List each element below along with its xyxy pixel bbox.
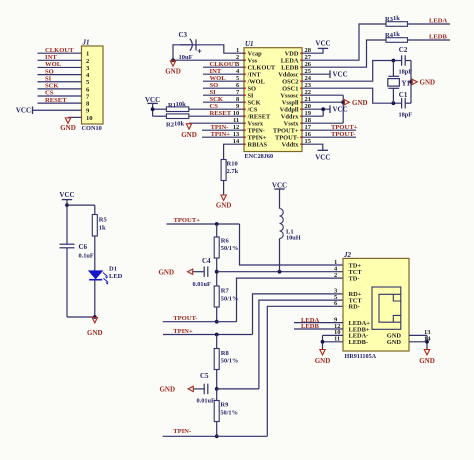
svg-text:1k: 1k xyxy=(99,224,106,231)
wire U1 pin 14 RBIAS to R10 xyxy=(224,144,244,159)
wire U1 pin 13 net TPIN+ xyxy=(202,136,244,138)
svg-text:0.1uF: 0.1uF xyxy=(79,253,94,260)
svg-text:R41k: R41k xyxy=(385,31,400,39)
J2 left pin names xyxy=(349,262,371,346)
resistor R10 2.7k xyxy=(221,160,226,181)
wire J1 pin 3 net WOL xyxy=(38,66,82,68)
wire net TPIN- to RD- xyxy=(163,435,268,437)
svg-text:C4: C4 xyxy=(202,257,211,265)
svg-text:LEDB: LEDB xyxy=(429,34,448,41)
wire U1 pin 5 net WOL xyxy=(203,80,244,82)
capacitor C2 18pF xyxy=(401,55,403,66)
svg-text:C2: C2 xyxy=(399,46,408,54)
junction TPIN- R9 xyxy=(215,434,219,438)
svg-text:/WOL: /WOL xyxy=(247,78,265,85)
svg-text:TPIN+: TPIN+ xyxy=(211,131,231,138)
junction J2 pin 14 ground xyxy=(425,340,429,344)
svg-text:VCC: VCC xyxy=(315,153,330,161)
junction ground pins 21-22 xyxy=(341,100,345,104)
wire J1 pin 6 net SCK xyxy=(38,88,82,90)
wire R10 to ground xyxy=(223,181,225,196)
U1 left pin names xyxy=(247,50,276,148)
svg-text:J1: J1 xyxy=(82,39,90,47)
junction center tap TCT xyxy=(215,270,219,274)
junction ground rail xyxy=(93,315,97,319)
svg-text:SI: SI xyxy=(210,89,217,96)
wire J1 pin 4 net SO xyxy=(38,74,82,76)
svg-text:Vssrx: Vssrx xyxy=(248,120,264,127)
svg-text:CLKOUT: CLKOUT xyxy=(210,61,239,68)
junction TPIN+ R8 xyxy=(215,333,219,337)
svg-text:Vsspll: Vsspll xyxy=(282,99,299,106)
wire U1 pin 28 VDD to VCC xyxy=(302,48,323,53)
svg-text:R5: R5 xyxy=(99,216,108,223)
svg-text:RESET: RESET xyxy=(210,110,232,117)
LED D1 xyxy=(89,271,102,279)
svg-text:/INT: /INT xyxy=(247,71,262,78)
svg-text:LEDA: LEDA xyxy=(281,57,299,64)
svg-text:LED: LED xyxy=(109,273,123,280)
ground at J1 pin 10 xyxy=(65,118,70,123)
svg-text:R9: R9 xyxy=(220,402,229,409)
svg-text:TD-: TD- xyxy=(349,275,360,282)
svg-text:LEDB-: LEDB- xyxy=(349,339,369,346)
svg-text:Vddpll: Vddpll xyxy=(280,106,299,113)
svg-text:18pF: 18pF xyxy=(399,111,413,118)
resistor R7 50/1% xyxy=(214,286,219,307)
junction crystal ground xyxy=(409,80,413,84)
wire U1 pin 7 net SI xyxy=(203,94,244,96)
wire R8 to C5 node xyxy=(216,370,218,389)
svg-text:INT: INT xyxy=(210,68,222,75)
wire R3 to LEDA stub xyxy=(408,23,451,25)
svg-text:R6: R6 xyxy=(221,238,230,245)
wire ground rail C6 to D1 xyxy=(67,316,95,318)
svg-text:GND: GND xyxy=(181,131,197,139)
power VCC at U1 pin 20 xyxy=(329,105,331,113)
capacitor C4 0.01uF xyxy=(203,266,205,277)
U1 right pin numbers 28-15 xyxy=(305,47,312,145)
svg-text:50/1%: 50/1% xyxy=(220,410,238,417)
svg-text:C5: C5 xyxy=(200,372,209,380)
svg-text:2: 2 xyxy=(334,272,337,279)
svg-text:SCK: SCK xyxy=(210,96,224,103)
svg-text:TPIN+: TPIN+ xyxy=(248,134,267,141)
junction crystal top xyxy=(392,59,396,63)
power VCC at J1 pin 9 xyxy=(33,109,82,111)
svg-text:RBIAS: RBIAS xyxy=(248,141,268,148)
ground at J2 right xyxy=(424,350,429,355)
wire J1 pin 8 net RESET xyxy=(38,102,82,104)
svg-text:Vcap: Vcap xyxy=(248,50,263,57)
svg-text:10: 10 xyxy=(86,115,93,122)
svg-text:RESET: RESET xyxy=(45,97,67,104)
junction VCC split xyxy=(65,203,69,207)
wire C4 to ground arrow xyxy=(193,271,205,273)
wire J2 pins 13 14 to ground xyxy=(409,334,427,336)
svg-text:1: 1 xyxy=(86,51,89,58)
resistor R3 1k xyxy=(386,22,408,27)
svg-text:VDD: VDD xyxy=(285,50,299,57)
svg-text:R110k: R110k xyxy=(168,101,186,109)
wire crystal caps to ground xyxy=(405,60,411,62)
junction crystal bottom xyxy=(392,101,396,105)
svg-text:Vss: Vss xyxy=(248,57,258,64)
svg-text:GND: GND xyxy=(387,339,402,346)
svg-text:GND: GND xyxy=(420,79,436,87)
RJ45 jack symbol xyxy=(372,287,401,329)
svg-text:WOL: WOL xyxy=(45,61,62,68)
wire J2 pins 10 11 to ground xyxy=(323,334,344,336)
svg-text:TPOUT+: TPOUT+ xyxy=(273,127,299,134)
svg-text:GND: GND xyxy=(158,268,174,276)
svg-text:Vddosc: Vddosc xyxy=(278,71,298,78)
svg-text:CLKOUT: CLKOUT xyxy=(45,47,74,54)
power VCC below pin 15 xyxy=(318,149,328,151)
wire R2 to U1 pin 10 RESET xyxy=(189,115,244,117)
resistor R4 1k xyxy=(386,38,408,43)
svg-text:TPOUT-: TPOUT- xyxy=(275,134,299,141)
J2 left pin numbers xyxy=(334,259,341,343)
svg-text:TPIN-: TPIN- xyxy=(211,124,229,131)
wire J1 pin 10 to ground xyxy=(68,116,82,118)
wire LEDA to J2 pin 9 xyxy=(294,322,343,324)
connector J2 HR911105A body xyxy=(343,258,409,351)
svg-text:VCC: VCC xyxy=(333,106,348,114)
wire net TPOUT- to TD- xyxy=(163,321,237,323)
wire LEDB to J2 pin 12 xyxy=(294,328,343,330)
connector J1 CON10 xyxy=(82,46,104,124)
wire R1 to U1 pin 9 CS xyxy=(189,108,244,110)
svg-text:0.01uF: 0.01uF xyxy=(197,397,216,404)
svg-text:2.7k: 2.7k xyxy=(227,168,239,175)
svg-text:VCC: VCC xyxy=(315,40,330,48)
wire C3 left lead xyxy=(173,45,190,60)
wire U1 pin 8 net SCK xyxy=(203,101,244,103)
wire R9 to TPIN- xyxy=(216,422,218,437)
wire C5 to ground arrow xyxy=(193,388,204,390)
wire U1 pin 17 net TPOUT+ xyxy=(302,129,356,131)
svg-text:GND: GND xyxy=(60,124,76,132)
svg-text:GND: GND xyxy=(87,329,103,337)
resistor R5 1k xyxy=(94,205,96,214)
wire U1 pin 27 LEDA to R3 xyxy=(302,24,386,60)
svg-text:GND: GND xyxy=(165,68,181,76)
wire VCC to R5 branch xyxy=(67,204,95,206)
svg-text:OSC2: OSC2 xyxy=(282,78,298,85)
J1 pin numbers 1-10 xyxy=(86,51,93,122)
svg-text:D1: D1 xyxy=(109,266,117,273)
ground at LED block xyxy=(92,318,97,323)
wire R6 to center tap xyxy=(216,258,218,286)
svg-text:0.01uF: 0.01uF xyxy=(193,281,212,288)
svg-text:SO: SO xyxy=(248,85,257,92)
svg-text:R10: R10 xyxy=(227,161,238,168)
wire R4 to LEDB stub xyxy=(408,39,451,41)
junction VCC-R1 xyxy=(151,107,155,111)
wire U1 pins 20 19 to VCC xyxy=(302,108,330,110)
svg-text:GND: GND xyxy=(352,99,368,107)
power VCC at U1 pin 25 Vddosc xyxy=(302,73,330,75)
ground at crystal xyxy=(412,79,417,84)
junction J2 pin 11 ground xyxy=(321,340,325,344)
svg-text:CS: CS xyxy=(45,90,54,97)
ground below C3 xyxy=(170,61,175,66)
ground at U1 pin 11 xyxy=(186,124,191,129)
svg-text:CS: CS xyxy=(210,103,219,110)
wire U1 pin 4 net INT xyxy=(203,73,244,75)
svg-text:TPIN-: TPIN- xyxy=(248,127,265,134)
resistor R9 50/1% xyxy=(216,389,218,401)
junction C5 node xyxy=(215,387,219,391)
svg-text:10uH: 10uH xyxy=(286,235,301,242)
svg-text:Vssosc: Vssosc xyxy=(280,92,298,99)
svg-text:50/1%: 50/1% xyxy=(221,245,239,252)
op IC U1 ENC28J60 body xyxy=(244,48,302,152)
svg-text:SI: SI xyxy=(248,92,255,99)
svg-text:TPOUT+: TPOUT+ xyxy=(174,217,201,224)
capacitor C6 0.1uF xyxy=(60,243,75,245)
svg-text:C1: C1 xyxy=(399,91,408,99)
wire R5 to D1 xyxy=(94,236,96,271)
resistor R6 50/1% xyxy=(216,224,218,237)
capacitor C3 10uF polarized xyxy=(190,39,193,51)
svg-text:R8: R8 xyxy=(221,350,230,357)
wire J1 pin 1 net CLKOUT xyxy=(38,52,82,54)
svg-text:OSC1: OSC1 xyxy=(282,85,298,92)
wire J1 pin 5 net SI xyxy=(38,81,82,83)
svg-text:INT: INT xyxy=(45,54,57,61)
svg-text:SO: SO xyxy=(210,82,219,89)
svg-text:50/1%: 50/1% xyxy=(221,358,239,365)
wire U1 pin 6 net SO xyxy=(203,87,244,89)
wire U1 pin 26 LEDB to R4 xyxy=(302,40,386,67)
svg-text:TPOUT-: TPOUT- xyxy=(331,131,355,138)
junction C3-Vss-GND xyxy=(171,58,175,62)
svg-text:Vddrx: Vddrx xyxy=(281,113,300,120)
ground at J2 left xyxy=(320,350,325,355)
svg-text:TPIN-: TPIN- xyxy=(173,428,191,435)
wire U1 pin 15 Vddtx to VCC xyxy=(302,144,323,150)
svg-text:SCK: SCK xyxy=(248,99,261,106)
wire U1 pins 22 21 18 to ground xyxy=(302,94,343,96)
svg-text:CON10: CON10 xyxy=(82,125,102,132)
wire center tap to J2 TCT pin4 and L1 xyxy=(217,271,343,273)
svg-text:R7: R7 xyxy=(221,288,230,295)
svg-text:SO: SO xyxy=(45,68,54,75)
wire U1 pin 24 OSC2 to crystal top node xyxy=(302,61,401,82)
capacitor C5 0.01uF xyxy=(203,384,205,395)
svg-text:GND: GND xyxy=(315,357,331,365)
svg-text:J2: J2 xyxy=(343,251,352,259)
wire U1 pin 3 net CLKOUT xyxy=(203,66,244,68)
svg-text:SI: SI xyxy=(45,75,52,82)
wire U1 pin 11 Vssrx to ground xyxy=(189,122,244,124)
U1 left pin numbers 1-14 xyxy=(233,47,240,145)
junction TPOUT+ R6 xyxy=(215,222,219,226)
crystal Y1 xyxy=(392,61,394,77)
svg-text:VCC: VCC xyxy=(16,106,31,114)
svg-text:R210k: R210k xyxy=(166,120,184,128)
svg-text:ENC28J60: ENC28J60 xyxy=(245,153,274,160)
wire C5 node to J2 TCT pin5 xyxy=(217,388,259,390)
wire J1 pin 2 net INT xyxy=(38,59,82,61)
wire net TPOUT+ to TD+ xyxy=(167,223,240,225)
svg-text:VCC: VCC xyxy=(333,71,348,79)
svg-text:10uF: 10uF xyxy=(179,54,193,61)
svg-text:GND: GND xyxy=(216,202,232,210)
capacitor C1 18pF xyxy=(401,98,403,109)
ground at U1 pin 21 xyxy=(344,100,349,105)
svg-text:GND: GND xyxy=(419,357,435,365)
U1 right pin names xyxy=(273,50,299,148)
svg-text:RD-: RD- xyxy=(349,304,360,311)
wire J1 pin 7 net CS xyxy=(38,95,82,97)
svg-text:/RESET: /RESET xyxy=(247,113,271,120)
wire U1 pin 16 net TPOUT- xyxy=(302,136,356,138)
ground at C5 xyxy=(188,386,193,391)
svg-text:U1: U1 xyxy=(245,40,254,48)
wire U1 pin2 Vss to ground node xyxy=(173,59,244,61)
ground below R10 xyxy=(221,195,226,200)
svg-text:R31k: R31k xyxy=(385,15,400,23)
svg-text:C6: C6 xyxy=(79,243,88,251)
junction TPOUT- R7 xyxy=(215,320,219,324)
svg-text:CLKOUT: CLKOUT xyxy=(248,64,276,71)
svg-text:HR911105A: HR911105A xyxy=(345,353,377,360)
power VCC above pin 28 xyxy=(318,47,328,49)
junction pins 19-20 xyxy=(321,107,325,111)
U1 pin connection dots xyxy=(244,52,302,145)
resistor R1 10k pull-up xyxy=(153,108,167,110)
svg-text:VCC: VCC xyxy=(59,191,74,199)
wire D1 to ground rail xyxy=(94,280,96,317)
resistor R2 10k pull-up xyxy=(153,115,167,117)
ground at C4 xyxy=(188,269,193,274)
svg-text:LEDA: LEDA xyxy=(429,18,448,25)
svg-text:Vsstx: Vsstx xyxy=(284,120,300,127)
wire U1 pin 12 net TPIN- xyxy=(202,129,244,131)
wire U1 pin 23 OSC1 to crystal bottom node xyxy=(302,88,401,103)
svg-text:C3: C3 xyxy=(179,31,188,39)
svg-text:/CS: /CS xyxy=(247,106,258,113)
svg-text:TPOUT+: TPOUT+ xyxy=(331,124,358,131)
svg-text:Y1: Y1 xyxy=(402,79,411,87)
wire C3 to U1 pin1 Vcap xyxy=(180,45,244,53)
wire net TPIN+ to RD+ xyxy=(163,334,253,336)
svg-text:LEDB: LEDB xyxy=(281,64,299,71)
junction L1 bottom xyxy=(278,270,282,274)
svg-text:GND: GND xyxy=(159,386,175,394)
svg-text:TPOUT-: TPOUT- xyxy=(173,315,197,322)
svg-text:Vddtx: Vddtx xyxy=(281,141,299,148)
svg-text:WOL: WOL xyxy=(210,75,227,82)
wire C6 branch xyxy=(66,205,68,244)
resistor R8 50/1% xyxy=(216,335,218,349)
svg-text:18pF: 18pF xyxy=(399,69,413,76)
wire R7 to TPOUT- xyxy=(216,307,218,322)
svg-text:SCK: SCK xyxy=(45,83,59,90)
svg-text:50/1%: 50/1% xyxy=(221,296,239,303)
